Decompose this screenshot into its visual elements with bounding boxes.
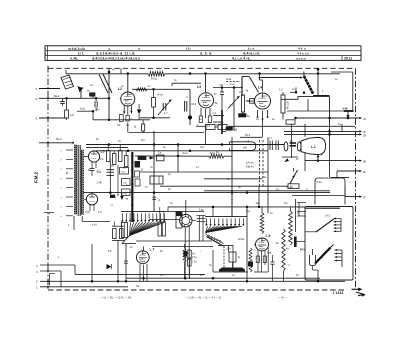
chassis dashed border top xyxy=(48,67,355,69)
label xyxy=(183,151,189,155)
svg-text:5-4a: 5-4a xyxy=(97,172,102,174)
svg-text:ıŁ 1ı ıŁ: ıŁ 1ı ıŁ xyxy=(200,52,212,56)
switch S4 frame xyxy=(288,249,316,267)
wire net B xyxy=(305,159,367,163)
svg-text:ıŁ1ı1ıŁ4ııı1ıı-ıŁ 11 ı.ıŁ: ıŁ1ı1ıŁ4ııı1ıı-ıŁ 11 ı.ıŁ xyxy=(96,52,135,56)
wire L9 pins xyxy=(258,248,268,273)
diode D3 xyxy=(107,264,112,269)
wire xyxy=(108,145,126,156)
label C11 xyxy=(219,83,235,87)
wire xyxy=(83,191,330,194)
wire xyxy=(313,266,319,282)
capacitor C1 xyxy=(60,98,65,106)
wire xyxy=(188,96,192,125)
wire xyxy=(331,176,350,178)
switch S1b hatched lever xyxy=(304,72,313,94)
wire xyxy=(92,110,95,120)
trimmer capacitor C8 xyxy=(228,88,240,132)
resistor R13 7k xyxy=(209,152,254,169)
junction box xyxy=(286,120,295,124)
grid cap xyxy=(250,99,254,104)
resistor R19b xyxy=(282,229,289,281)
resistor R6 (horiz) xyxy=(136,88,147,91)
tuning capacitor CV1 xyxy=(230,142,256,151)
wire xyxy=(292,187,345,197)
wire xyxy=(82,221,110,226)
title block row 1 text xyxy=(68,47,306,51)
wire xyxy=(204,190,330,192)
resistor R10 (dark) xyxy=(239,114,251,118)
svg-text:ıı. 4Ł.: ıı. 4Ł. xyxy=(70,57,79,61)
node 5a-4 stub xyxy=(39,137,74,144)
wire xyxy=(212,250,214,272)
ferrite rod antenna A1 xyxy=(54,74,148,98)
svg-text:14.3: 14.3 xyxy=(325,215,330,218)
wire xyxy=(66,68,121,74)
terminal 6 stub xyxy=(36,97,110,101)
wire xyxy=(231,137,233,216)
wire xyxy=(328,126,331,177)
wire (top feed) xyxy=(108,68,111,121)
switch S3a contacts xyxy=(122,213,166,222)
svg-text:Łı 1: Łı 1 xyxy=(78,52,84,56)
svg-text:L.8: L.8 xyxy=(98,211,102,214)
resistor R8 xyxy=(241,95,250,112)
svg-text:1(4): 1(4) xyxy=(243,148,247,150)
svg-text:1 1312: 1 1312 xyxy=(333,291,344,295)
title block row marks xyxy=(45,48,46,61)
resistor R7 xyxy=(207,116,212,128)
capacitor C6 xyxy=(197,116,203,128)
wire xyxy=(80,91,82,99)
wire net bus2 xyxy=(96,150,268,153)
resistor R12 (dark) xyxy=(138,156,146,159)
wire xyxy=(205,124,207,145)
wire xyxy=(50,274,55,286)
heavy bus bar xyxy=(131,152,134,222)
svg-text:8a-k: 8a-k xyxy=(54,94,60,98)
switch S3c rail xyxy=(205,216,247,218)
resistor R11 (dark) xyxy=(226,127,238,132)
transformer Tr secondary xyxy=(81,150,84,214)
capacitor C16 xyxy=(158,207,166,236)
svg-text:1 kω: 1 kω xyxy=(230,83,235,86)
svg-text:≈ Ł,Ł4: ≈ Ł,Ł4 xyxy=(90,224,97,227)
terminal 2 xyxy=(36,280,345,284)
wire xyxy=(129,131,205,133)
wire xyxy=(177,145,179,173)
svg-text:4a7a2: 4a7a2 xyxy=(238,239,245,241)
title block row 2 text xyxy=(78,52,309,56)
wire net C xyxy=(284,130,367,134)
wire xyxy=(242,88,244,116)
switch S2 xyxy=(286,168,298,190)
node M xyxy=(317,153,323,161)
wire xyxy=(140,117,170,120)
svg-text:1kΩ: 1kΩ xyxy=(80,106,85,110)
diode D5 xyxy=(137,104,142,120)
svg-text:9 ka: 9 ka xyxy=(210,152,215,155)
wire xyxy=(258,186,260,206)
wire xyxy=(313,95,329,97)
terminal 5 stub xyxy=(36,117,67,121)
svg-text:1Ł4a: 1Ł4a xyxy=(226,79,232,81)
wire xyxy=(231,194,233,217)
terminal 4 xyxy=(36,264,75,268)
capacitor C10 xyxy=(152,197,160,201)
svg-text:L.9: L.9 xyxy=(266,234,271,238)
svg-text:ıŁ4ııı1Łııı4ııŁıı1ııŁı4ıııŁııŁ: ıŁ4ııı1Łııı4ııŁıı1ııŁı4ıııŁııŁıı xyxy=(92,57,140,61)
svg-text:ıı.ıı ıı.ıı: ıı.ıı ıı.ıı xyxy=(296,57,306,61)
svg-text:9 ga: 9 ga xyxy=(199,210,204,212)
capacitor C9 xyxy=(157,152,165,161)
wire xyxy=(114,221,121,226)
svg-text:F.M.2: F.M.2 xyxy=(34,171,39,183)
resistor R18 xyxy=(256,202,264,234)
wire xyxy=(153,131,155,212)
resistor R17 xyxy=(123,156,128,170)
wire xyxy=(127,74,129,93)
wire xyxy=(92,96,94,98)
capacitor C20 (dark) xyxy=(110,193,115,198)
terminal 3 xyxy=(36,270,61,274)
resistor R14 xyxy=(107,151,111,162)
switch S4 lever xyxy=(315,245,334,264)
switch S1a xyxy=(242,77,259,97)
wire xyxy=(160,185,288,187)
svg-text:CŁ1: CŁ1 xyxy=(192,103,197,106)
component value labels (scan speckle) xyxy=(58,70,338,278)
svg-text:Ł1ı: Ł1ı xyxy=(186,47,191,51)
switch S3c wiper fan xyxy=(206,226,243,244)
transformer Tr core xyxy=(78,145,80,216)
capacitor C19 xyxy=(97,175,115,184)
svg-text:CŁ1: CŁ1 xyxy=(200,147,205,149)
wire xyxy=(119,97,122,99)
wire xyxy=(84,156,88,158)
resistor R23 xyxy=(176,212,182,228)
capacitor C2 xyxy=(93,97,100,112)
trimmer capacitor C21 xyxy=(206,122,215,130)
label Tr xyxy=(65,170,69,174)
resistor R20 xyxy=(183,248,190,262)
capacitor C12 xyxy=(108,226,124,253)
svg-text:Ta4: Ta4 xyxy=(256,202,261,205)
wire P1 pins xyxy=(185,226,189,279)
capacitor C11 xyxy=(90,168,101,172)
wire xyxy=(240,134,262,137)
wire xyxy=(213,86,243,89)
tube L6 xyxy=(86,194,103,214)
resistor R22 xyxy=(229,252,241,268)
wire xyxy=(246,100,253,102)
title block row 3 text xyxy=(70,57,352,61)
svg-text:1kω: 1kω xyxy=(141,140,145,142)
resistor R21 xyxy=(188,244,197,279)
wire xyxy=(185,200,187,214)
svg-text:— 1.141 — 41 — 11 — 4.1 — 11: — 1.141 — 41 — 11 — 4.1 — 11 xyxy=(185,296,222,299)
svg-text:4: 4 xyxy=(108,47,110,51)
resistor R9 xyxy=(279,89,290,120)
wire xyxy=(287,99,343,111)
wire xyxy=(172,83,201,86)
wire xyxy=(135,155,232,158)
tube L4 xyxy=(255,86,271,110)
resistor R3 xyxy=(126,116,129,128)
tube L9 xyxy=(256,234,271,251)
trimmer capacitor C4 xyxy=(158,100,172,116)
diode D4 xyxy=(120,193,129,201)
svg-text:4 kω: 4 kω xyxy=(183,151,189,155)
wire xyxy=(117,240,119,281)
wire xyxy=(160,207,213,217)
svg-text:1ω: 1ω xyxy=(300,249,303,251)
svg-text:L.1: L.1 xyxy=(311,145,316,149)
wire xyxy=(304,124,306,171)
wire L6 pins xyxy=(84,199,94,211)
wire xyxy=(65,97,68,106)
svg-text:8(7): 8(7) xyxy=(86,211,91,214)
chassis dashed border bottom xyxy=(48,289,347,291)
wire xyxy=(216,124,226,131)
trimmer capacitor C22 xyxy=(215,122,227,130)
title block table frame xyxy=(45,46,361,61)
power block frame xyxy=(305,207,353,281)
wire xyxy=(305,208,340,210)
switch lever S5 xyxy=(300,215,334,252)
wire xyxy=(260,74,263,92)
wire xyxy=(75,265,205,274)
resistor R25 (dark) xyxy=(248,262,253,267)
resistor R29 (dark) xyxy=(135,161,141,168)
svg-text:5a-4: 5a-4 xyxy=(56,137,62,141)
diode D1 (antenna) xyxy=(78,86,84,92)
wire L2 pins xyxy=(123,105,132,115)
wire xyxy=(74,216,82,230)
resistor R15 xyxy=(111,154,116,168)
wire xyxy=(259,76,304,78)
svg-text:8 kω: 8 kω xyxy=(151,77,158,81)
wire xyxy=(329,97,331,127)
wire xyxy=(189,89,191,96)
wire xyxy=(204,178,262,180)
svg-text:5.6a: 5.6a xyxy=(317,181,322,184)
svg-text:Łı. ıı.: Łı. ıı. xyxy=(248,47,255,51)
wire xyxy=(226,79,240,82)
label 2k xyxy=(44,212,54,216)
wire xyxy=(282,124,298,162)
switch S3c lever xyxy=(207,237,224,247)
svg-text:C4a: C4a xyxy=(262,177,267,179)
switch S3a rail xyxy=(121,210,164,212)
drawing number xyxy=(333,291,344,295)
svg-text:ııı4ıŁ1ıı4ı: ııı4ıŁ1ıı4ı xyxy=(68,47,85,51)
svg-text:8ω: 8ω xyxy=(88,170,91,172)
resistor R5 xyxy=(134,120,145,131)
switch contacts xyxy=(197,210,206,242)
capacitor C14 xyxy=(256,256,266,263)
wire xyxy=(168,206,340,211)
resistor R20b (dark) xyxy=(183,251,187,257)
wire xyxy=(205,74,207,93)
svg-text:E: E xyxy=(364,170,366,174)
wire xyxy=(77,106,93,111)
svg-text:ıı ıı: ıı ıı xyxy=(269,138,273,140)
wire net F xyxy=(345,195,366,199)
wire net bus1 xyxy=(86,143,284,146)
wire xyxy=(86,147,128,149)
wire grid bus xyxy=(93,119,150,121)
wire xyxy=(91,193,93,194)
wire xyxy=(317,68,320,96)
resistor R4 xyxy=(152,89,163,118)
coil slug (tuning) xyxy=(87,89,96,97)
wire xyxy=(262,120,264,138)
svg-text:C.8: C.8 xyxy=(70,113,75,117)
continuation arrow xyxy=(352,288,366,297)
resistor R30 xyxy=(135,171,140,177)
resistor R24 xyxy=(249,248,252,272)
svg-text:8ω: 8ω xyxy=(286,249,289,251)
transformer Tr primary xyxy=(74,145,77,214)
wire xyxy=(218,245,233,247)
wire L4 pins xyxy=(257,110,269,120)
wire xyxy=(246,206,248,281)
chassis dash-dot border left xyxy=(47,66,49,290)
meter V.M xyxy=(343,107,354,118)
speaker L1 coupling xyxy=(284,142,301,151)
wire xyxy=(331,72,353,111)
svg-text:Z4g 4ω: Z4g 4ω xyxy=(246,166,254,169)
svg-text:4ω: 4ω xyxy=(192,254,195,256)
tube L2 xyxy=(118,87,135,106)
resistor R21b xyxy=(188,254,198,267)
svg-text:F: F xyxy=(364,195,366,199)
svg-text:— 41 —: — 41 — xyxy=(278,296,288,299)
label F.M.2 (sheet name) xyxy=(34,171,39,183)
svg-text:84.11M: 84.11M xyxy=(287,101,290,109)
wire xyxy=(127,123,129,133)
svg-text:≈17a: ≈17a xyxy=(226,248,232,251)
wire L3 pins xyxy=(201,108,210,118)
revision strip xyxy=(100,296,288,299)
switch bar (dark) xyxy=(294,237,305,248)
capacitor C15 xyxy=(267,253,275,282)
svg-text:4 4 ıı ıı ıı: 4 4 ıı ıı ıı xyxy=(297,52,309,56)
wire xyxy=(150,219,180,221)
wire xyxy=(91,244,93,281)
wire top rail xyxy=(127,72,340,75)
tube L7 xyxy=(136,248,154,264)
resistor R2 8k xyxy=(148,72,165,81)
svg-text:M: M xyxy=(321,153,323,157)
wire xyxy=(213,121,222,123)
wire net D xyxy=(284,133,367,137)
diode D2 xyxy=(150,156,155,159)
svg-text:4 4. ıı: 4 4. ıı xyxy=(298,47,306,51)
gang link (dashed) xyxy=(260,140,264,186)
switch S3a wiper fan xyxy=(122,222,165,243)
svg-text:25.11: 25.11 xyxy=(344,57,352,61)
resistor R1 xyxy=(65,106,75,120)
resistor R26 xyxy=(120,168,129,175)
tube L3 xyxy=(197,85,214,108)
svg-text:4.ı.ı,ıı.4.ıŁ.: 4.ı.ı,ıı.4.ıŁ. xyxy=(232,57,251,61)
wire xyxy=(281,97,330,100)
svg-text:V.M: V.M xyxy=(343,107,348,111)
wire xyxy=(267,137,269,213)
capacitor C5 xyxy=(185,101,197,112)
wire xyxy=(205,273,284,275)
resistor R19 xyxy=(284,202,292,245)
svg-text:2 7a: 2 7a xyxy=(192,262,197,264)
switch S3c contacts xyxy=(206,218,245,225)
chassis dash-dot border right xyxy=(355,68,357,289)
wire xyxy=(213,112,225,116)
wire xyxy=(132,88,190,91)
svg-text:8ω: 8ω xyxy=(247,115,250,118)
potentiometer P1 xyxy=(180,214,196,226)
output block frame xyxy=(315,178,345,205)
capacitor C7 xyxy=(215,88,225,111)
capacitor C3 xyxy=(117,115,123,128)
svg-text:L.7: L.7 xyxy=(150,248,155,252)
svg-text:ıı.: ıı. xyxy=(138,47,141,51)
wire xyxy=(296,199,307,232)
capacitor C23 xyxy=(122,223,128,238)
junction box X11 xyxy=(288,184,299,189)
wire xyxy=(184,244,186,279)
svg-text:L4: L4 xyxy=(258,86,262,90)
wire xyxy=(60,271,62,287)
wire L5 pins xyxy=(92,162,96,168)
wire xyxy=(341,124,343,132)
svg-text:— 11 — 411 — 11.41 — 141: — 11 — 411 — 11.41 — 141 xyxy=(100,296,132,299)
svg-text:ıŁ4ı 4ω: ıŁ4ı 4ω xyxy=(246,162,254,165)
resistor R28 xyxy=(122,189,131,196)
capacitor C18 xyxy=(97,170,115,174)
svg-text:1-4B: 1-4B xyxy=(97,183,102,185)
wire xyxy=(117,165,119,196)
wire xyxy=(126,241,213,281)
svg-text:84-4: 84-4 xyxy=(245,134,251,137)
chassis pedestal xyxy=(209,265,248,272)
speaker L1 horn xyxy=(301,137,326,154)
transformer T2 (small can) xyxy=(150,176,163,184)
svg-text:1.41: 1.41 xyxy=(216,124,221,127)
svg-text:1.7: 1.7 xyxy=(164,112,168,115)
capacitor C13 xyxy=(124,261,128,263)
tube L5 xyxy=(88,150,104,163)
wire (thick bus) xyxy=(221,110,223,134)
switch contact xyxy=(290,88,305,94)
wire net E xyxy=(337,170,366,178)
resistor R16 xyxy=(119,151,123,162)
switch S4 contacts xyxy=(335,249,343,267)
svg-text:Ta1: Ta1 xyxy=(234,129,239,132)
wire xyxy=(126,277,320,280)
wire xyxy=(196,122,355,126)
capacitor bank xyxy=(269,138,278,150)
capacitor C17 xyxy=(224,245,233,268)
svg-text:Cya: Cya xyxy=(267,253,272,255)
svg-text:1.7: 1.7 xyxy=(230,105,234,108)
wire L7 pins xyxy=(136,264,147,288)
terminal 1 xyxy=(36,286,128,290)
svg-text:ıŁ4ııŁı.ııŁ: ıŁ4ııŁı.ııŁ xyxy=(243,52,260,56)
wire xyxy=(91,171,93,176)
wire xyxy=(140,168,268,172)
